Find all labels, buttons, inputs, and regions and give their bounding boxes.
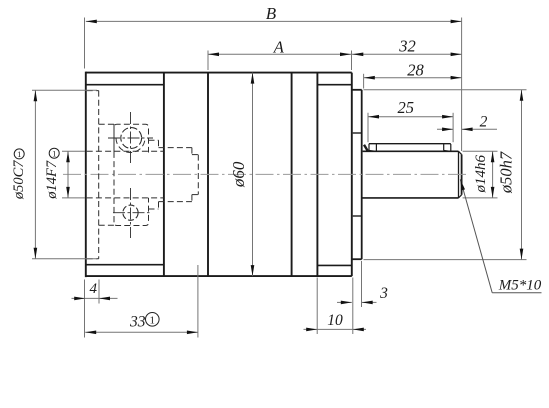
svg-text:ø14F7: ø14F7	[44, 160, 60, 200]
svg-text:4: 4	[89, 281, 97, 297]
svg-text:3: 3	[379, 285, 388, 302]
svg-text:A: A	[273, 37, 285, 56]
svg-text:ø50C7: ø50C7	[11, 160, 27, 200]
svg-text:32: 32	[398, 36, 416, 55]
svg-text:ø60: ø60	[229, 161, 248, 188]
svg-text:28: 28	[407, 60, 424, 79]
svg-text:33: 33	[129, 313, 146, 330]
svg-text:2: 2	[480, 113, 488, 130]
svg-text:10: 10	[327, 312, 343, 329]
svg-text:1: 1	[17, 149, 21, 159]
svg-text:ø14h6: ø14h6	[473, 155, 489, 194]
svg-text:M5*10: M5*10	[498, 278, 542, 294]
svg-text:1: 1	[52, 148, 56, 158]
svg-text:25: 25	[398, 98, 415, 117]
svg-text:ø50h7: ø50h7	[497, 151, 516, 194]
svg-text:1: 1	[150, 314, 156, 326]
svg-text:B: B	[266, 4, 277, 23]
